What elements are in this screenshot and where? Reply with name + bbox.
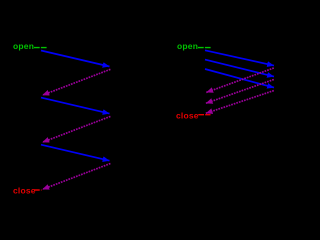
svg-text:open: open <box>177 41 198 51</box>
svg-text:open: open <box>13 41 34 51</box>
svg-text:close: close <box>176 110 199 120</box>
svg-text:close: close <box>13 186 36 196</box>
